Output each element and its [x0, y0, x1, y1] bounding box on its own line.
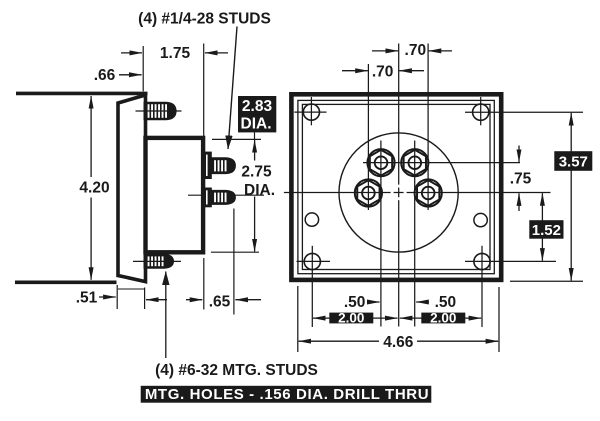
svg-text:4.66: 4.66	[383, 334, 414, 351]
mounting hole bottom-right	[474, 253, 490, 269]
terminal stud bottom-right: hex nut	[415, 179, 442, 206]
.51 inward arrow left-pointing	[146, 299, 167, 301]
svg-text:2.75: 2.75	[241, 164, 272, 181]
dimension 1.75 right arrow	[205, 52, 228, 54]
ref line: vertical center line	[398, 44, 400, 327]
3.57 black label box	[554, 151, 592, 171]
2.75 dia bottom dimension line	[211, 251, 259, 253]
dimension .75 upper segment down arrow	[518, 146, 520, 162]
terminal stud top-right: hex nut	[401, 149, 428, 176]
ref line: vertical through lower-right stud	[427, 44, 429, 211]
mounting hole top-right	[473, 104, 489, 120]
terminal stud top-left: hex nut	[367, 149, 394, 176]
dimension 4.20 vertical line lower segment	[90, 198, 92, 280]
dimension 1.52 vertical line	[541, 193, 543, 261]
svg-text:.65: .65	[209, 294, 231, 311]
ref line: top-right hole horizontal + 3.57 extension	[465, 111, 583, 113]
svg-text:4.20: 4.20	[79, 180, 109, 197]
side view: panel top line	[16, 92, 148, 96]
dimension .70 lower arrows	[342, 70, 368, 72]
ref line: top-left hole horizontal	[294, 111, 326, 113]
dimension .51 arrow right-pointing	[99, 296, 116, 298]
.51 tick line at flange front	[144, 288, 146, 310]
terminal stud bottom-left: hex nut	[355, 179, 382, 206]
svg-text:3.57: 3.57	[559, 153, 588, 170]
leader line from (4) #6-32 MTG. STUDS to bottom stud	[165, 272, 167, 359]
ref line: vertical through top-right stud	[414, 141, 416, 327]
2.00 right black label box	[421, 313, 465, 324]
svg-text:.75: .75	[510, 171, 532, 188]
svg-text:.50: .50	[435, 294, 457, 311]
side view: #6-32 top stud center line	[136, 110, 182, 112]
svg-text:2.00: 2.00	[338, 311, 364, 326]
.51 tick line at flange rear	[116, 285, 118, 309]
.65 extension line at stud tip	[233, 209, 235, 315]
side view: 1/4-28 stud upper	[202, 152, 236, 179]
dimension .50 right arrow	[416, 301, 429, 303]
dimension .65 right arrow	[235, 299, 261, 301]
svg-text:.70: .70	[405, 42, 427, 59]
1.75 extension line right	[203, 44, 205, 138]
svg-text:(4) #1/4-28 STUDS: (4) #1/4-28 STUDS	[138, 11, 271, 28]
side view: #6-32 mtg stud bottom	[144, 254, 175, 269]
svg-text:.50: .50	[344, 294, 366, 311]
ref line: vertical through lower-left stud	[367, 64, 369, 210]
ref line: top-left hole vertical	[310, 97, 312, 125]
svg-text:.70: .70	[372, 64, 394, 81]
side view: #6-32 mtg stud top	[144, 102, 177, 121]
svg-text:.66: .66	[94, 67, 116, 84]
2.75 vertical dim line upper segment with up arrow	[254, 140, 256, 161]
dimension .65 left arrow	[186, 299, 202, 301]
svg-text:DIA.: DIA.	[241, 116, 272, 133]
side hole right	[474, 213, 487, 226]
dimension .66 arrow	[119, 74, 142, 76]
side view: meter body rectangle 2.75 dia	[146, 138, 204, 252]
svg-text:.51: .51	[76, 290, 98, 307]
side view: 1/4-28 stud lower	[202, 188, 236, 208]
svg-text:(4) #6-32 MTG. STUDS: (4) #6-32 MTG. STUDS	[155, 362, 318, 379]
front view: large center circle	[339, 133, 458, 252]
dimension 4.20 vertical line upper segment	[90, 96, 92, 177]
dimension .50 left arrow	[370, 301, 380, 303]
side view: body horizontal centerline	[188, 194, 264, 196]
ref line: bottom-left hole vertical + 2.00 extension	[311, 246, 313, 327]
svg-text:DIA.: DIA.	[244, 182, 275, 199]
1.75 extension line left	[142, 46, 144, 91]
svg-text:MTG. HOLES - .156 DIA. DRILL T: MTG. HOLES - .156 DIA. DRILL THRU	[145, 386, 429, 403]
ref line: panel bottom 3.57 extension	[510, 280, 583, 282]
2.83 DIA. black label box	[238, 96, 276, 132]
dimension 2.00 left arrows	[313, 317, 330, 319]
mounting hole top-left	[303, 104, 319, 120]
mounting hole bottom-left	[304, 253, 320, 269]
dimension 1.75 left arrow	[121, 52, 142, 54]
ref line: bottom-right hole vertical + 2.00 extension	[481, 246, 483, 327]
flange bottom extension line	[118, 288, 144, 290]
2.83 dia label box connector	[254, 132, 256, 139]
4.66 extension line right	[498, 287, 500, 352]
dimension .70 upper arrows	[372, 50, 398, 52]
svg-text:1.75: 1.75	[160, 45, 191, 62]
.65 extension line at body rear	[203, 258, 205, 310]
4.66 extension line left	[297, 286, 299, 352]
side view: #6-32 bottom stud center line	[133, 260, 181, 262]
2.75 vertical dim line lower segment with down arrow	[254, 197, 256, 252]
ref line: bottom-right hole horizontal + 1.52 extension	[465, 260, 556, 262]
center mark gaps	[391, 185, 407, 201]
front view: panel outer square	[291, 94, 501, 280]
dimension 3.57 vertical line	[570, 113, 572, 281]
dimension 2.00 right arrows	[400, 317, 422, 319]
side view: flange body outline	[118, 95, 146, 282]
2.75 dia top dimension line	[212, 138, 261, 140]
ref line: bottom-left hole horizontal	[297, 260, 331, 262]
2.00 left black label box	[329, 313, 373, 324]
MTG. HOLES black bar	[141, 386, 432, 403]
label boxes	[141, 96, 593, 403]
front view: inner rectangle 2	[302, 104, 490, 269]
ref line: top stud pair horizontal + .75 extension	[363, 162, 520, 164]
svg-text:2.00: 2.00	[430, 311, 456, 326]
ref line: top-right hole vertical	[480, 97, 482, 125]
front view: inner rectangle 1	[298, 100, 494, 273]
side hole left	[305, 213, 318, 226]
1.52 black label box	[529, 220, 563, 239]
ref line: vertical through top-left stud	[380, 141, 382, 327]
dimension 4.66 line right segment	[417, 340, 498, 342]
dimension .75 lower segment up arrow	[518, 193, 520, 211]
side view: panel bottom line	[15, 280, 117, 284]
dimension 4.66 line left segment	[299, 340, 379, 342]
ref line: horizontal center line	[284, 192, 551, 194]
svg-text:2.83: 2.83	[242, 98, 273, 115]
leader arrow from (4) #1/4-28 STUDS to upper stud	[228, 27, 237, 150]
svg-text:1.52: 1.52	[532, 222, 561, 239]
